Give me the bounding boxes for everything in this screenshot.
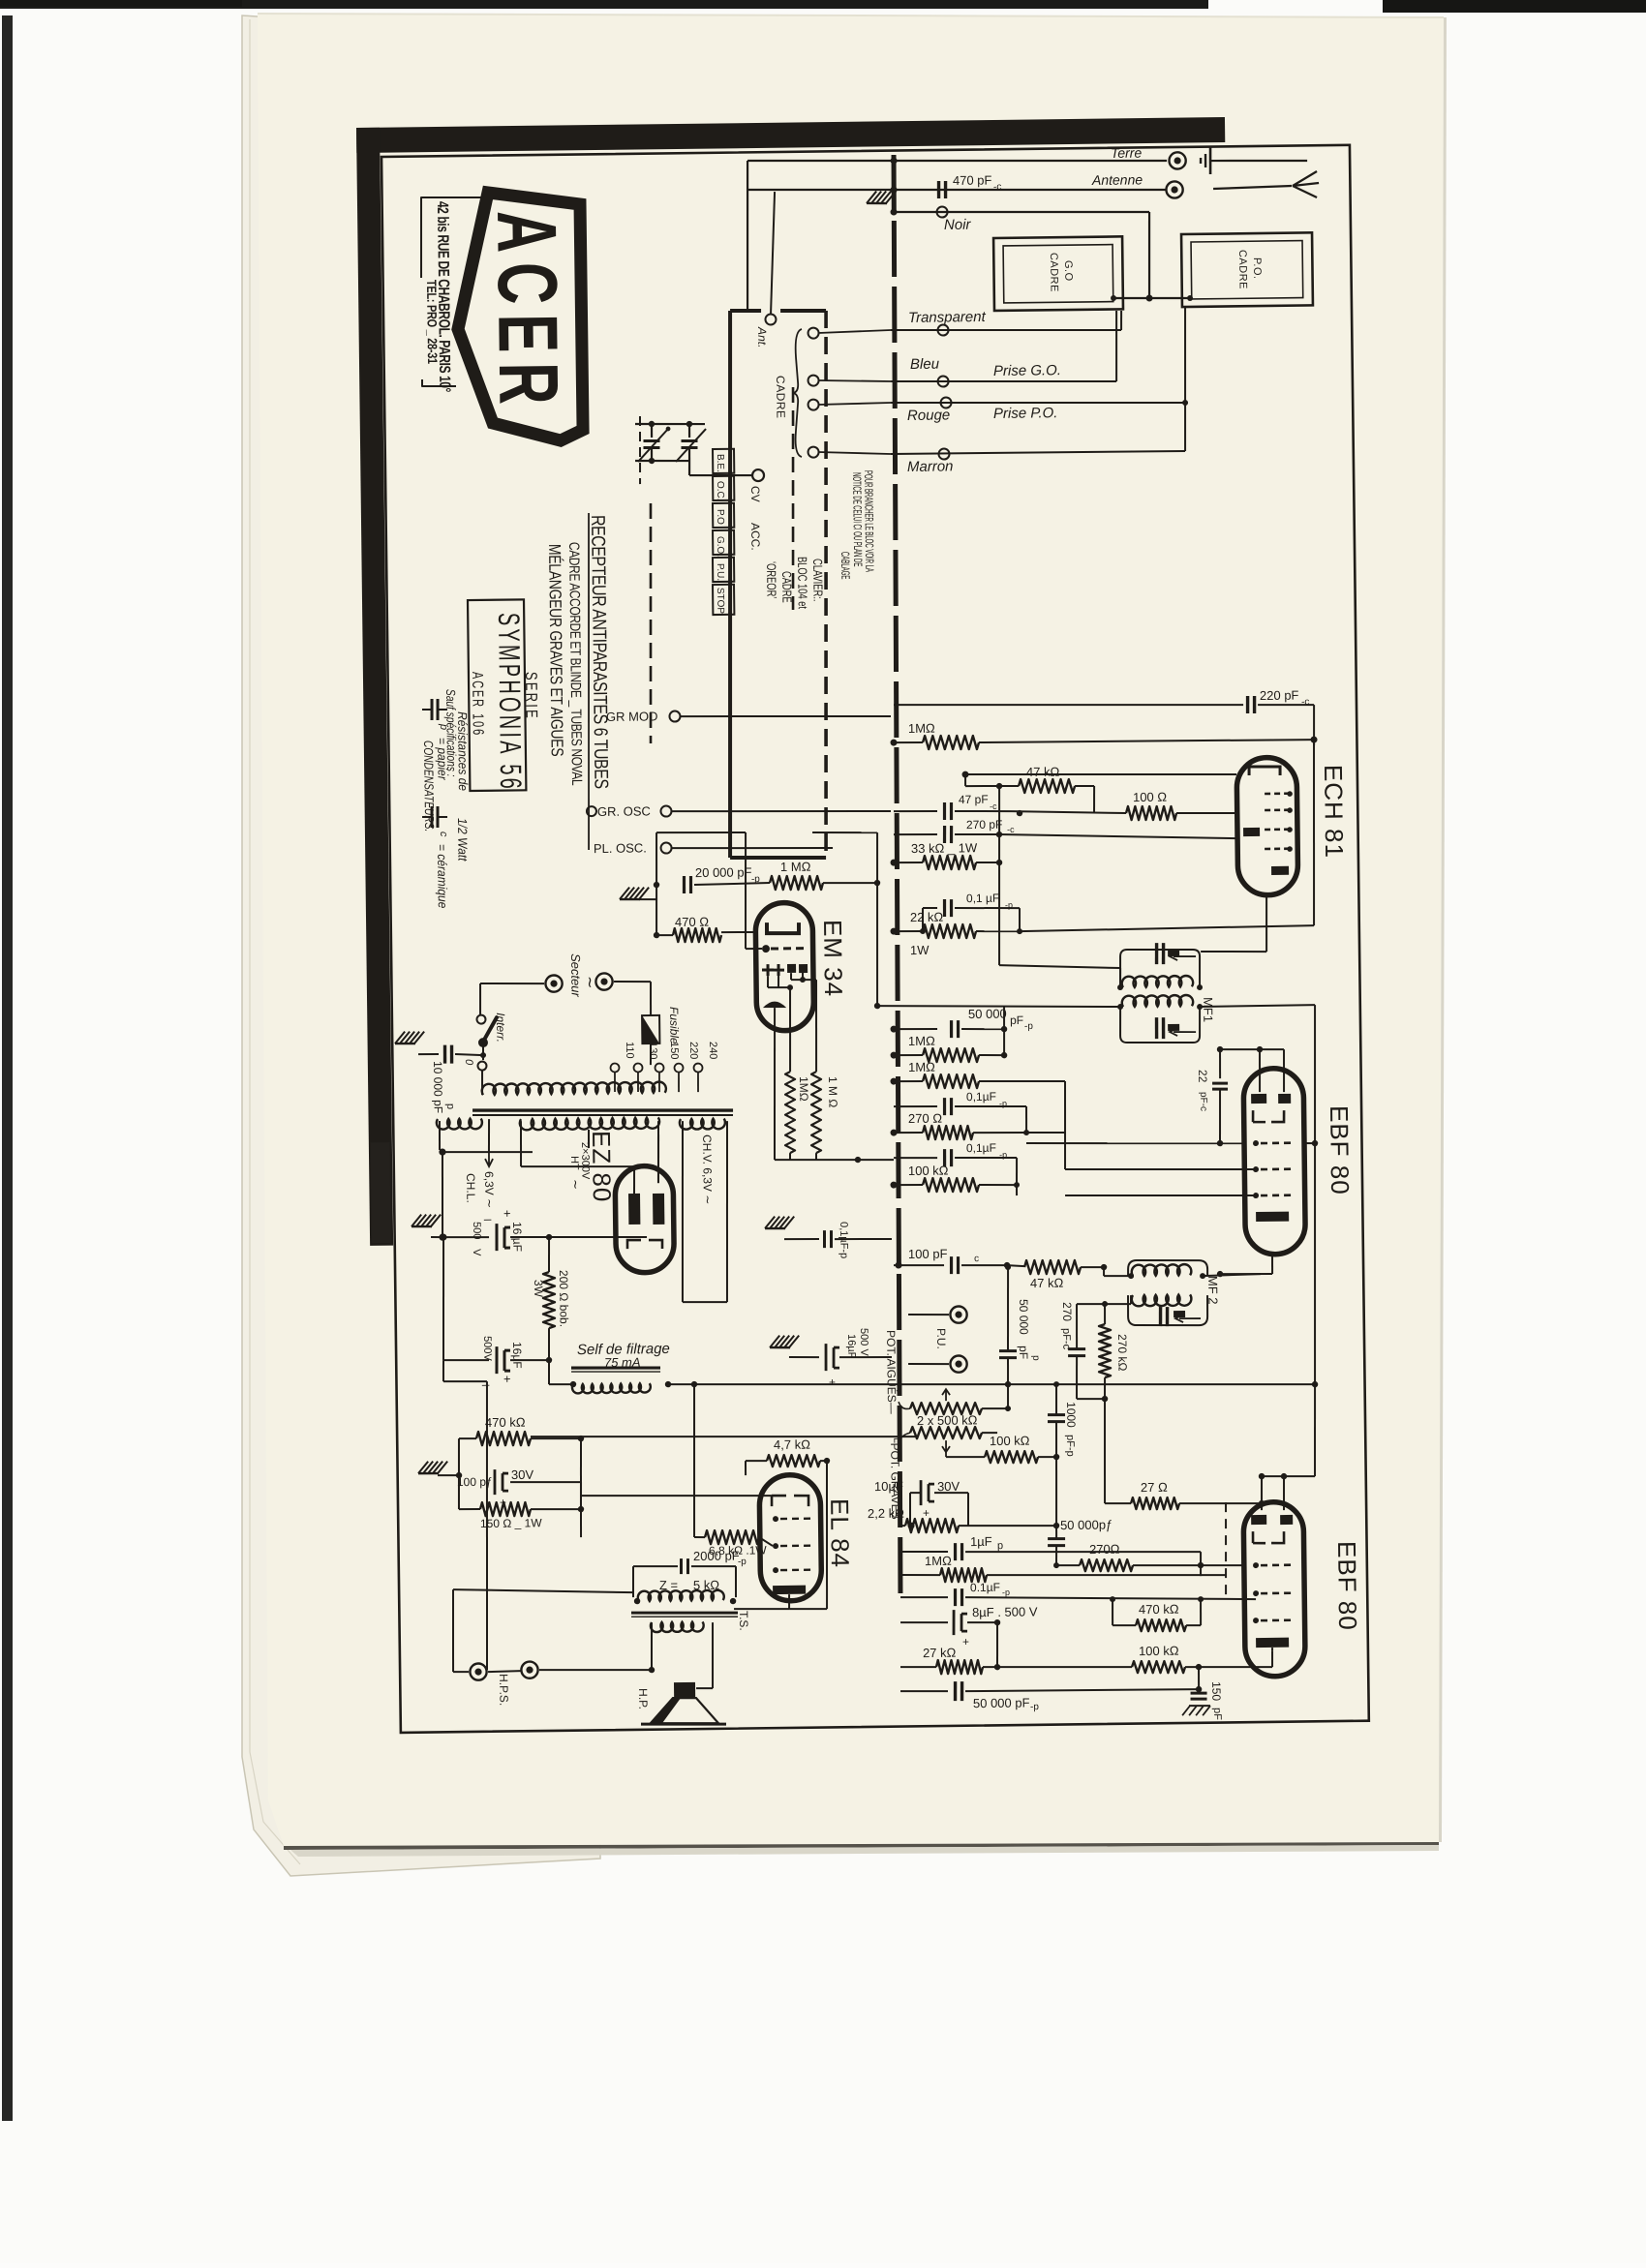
wire cathode el84 bbox=[510, 1481, 581, 1483]
svg-text:O.C.: O.C. bbox=[715, 481, 725, 501]
resistor 33 k ohm 1W bbox=[894, 862, 923, 864]
keyboard key BE bbox=[713, 449, 734, 473]
svg-text:100 Ω: 100 Ω bbox=[1133, 790, 1167, 804]
resistor 6.8 k ohm 1W bbox=[692, 1384, 696, 1537]
potentiometer 2x500k (graves) bbox=[910, 1426, 982, 1439]
svg-text:50 000: 50 000 bbox=[1017, 1299, 1030, 1335]
MF1 primary unit bbox=[1120, 949, 1201, 988]
svg-text:1/2 Watt: 1/2 Watt bbox=[455, 818, 470, 862]
electrolytic 16uF 500V af bbox=[826, 1344, 840, 1371]
clavier box bottom edge bbox=[730, 857, 826, 859]
keyboard key STOP bbox=[713, 585, 734, 615]
dashed gang line cv bbox=[639, 416, 641, 484]
clavier terminal 1 bbox=[808, 327, 818, 338]
terminal CV ACC bbox=[752, 469, 764, 481]
svg-text:P.O.: P.O. bbox=[1251, 257, 1263, 280]
output transformer core bbox=[631, 1612, 738, 1615]
cadre brace bbox=[792, 329, 803, 457]
resistor 1M ohm (b) bbox=[894, 1080, 923, 1083]
resistor 100 k ohm af bbox=[1132, 1660, 1185, 1673]
svg-text:0.1µF: 0.1µF bbox=[970, 1581, 1000, 1594]
resistor 270 ohm out bbox=[1080, 1558, 1133, 1571]
resistor 100 k ohm tone bbox=[985, 1450, 1038, 1463]
svg-text:P.O: P.O bbox=[715, 509, 725, 525]
electrolytic 16uF 500V (1) bbox=[439, 1233, 445, 1240]
svg-text:ʻOREORʼ: ʻOREORʼ bbox=[764, 561, 777, 599]
tube EM34 envelope bbox=[755, 902, 814, 1031]
svg-text:1MΩ: 1MΩ bbox=[925, 1554, 952, 1568]
speaker H.P. bbox=[651, 1622, 652, 1670]
svg-text:470 pF: 470 pF bbox=[953, 172, 992, 187]
wire em34 top bbox=[655, 832, 658, 937]
HT centre tap bbox=[588, 1130, 590, 1148]
svg-text:Noir: Noir bbox=[944, 217, 972, 233]
thick black border bar (top) bbox=[356, 117, 1225, 153]
svg-text:2000 pF: 2000 pF bbox=[693, 1548, 740, 1563]
tube EBF80 (2) envelope bbox=[1243, 1501, 1305, 1677]
transformer secondary CH.L. bbox=[437, 1119, 482, 1130]
svg-text:p: p bbox=[997, 1540, 1003, 1552]
svg-text:MF1: MF1 bbox=[1201, 997, 1215, 1022]
transformer secondary HT bbox=[520, 1117, 659, 1130]
svg-text:47 kΩ: 47 kΩ bbox=[1026, 765, 1060, 779]
EM34 internal wires bbox=[767, 976, 769, 987]
svg-text:CADRE: CADRE bbox=[1236, 250, 1249, 289]
resistor 47 k ohm det bbox=[1007, 1265, 1024, 1266]
terminal Antenne bbox=[1166, 181, 1182, 197]
svg-text:1 M Ω: 1 M Ω bbox=[826, 1076, 839, 1108]
svg-text:+: + bbox=[829, 1376, 836, 1389]
output transformer TS primary bbox=[638, 1590, 724, 1601]
svg-text:POT. AIGUÉS—: POT. AIGUÉS— bbox=[884, 1330, 899, 1414]
svg-text:c: c bbox=[438, 832, 449, 837]
svg-text:30V: 30V bbox=[937, 1479, 960, 1494]
svg-text:500 V: 500 V bbox=[858, 1328, 869, 1357]
variable capacitor CV 1 bbox=[649, 421, 655, 427]
resistor 270 ohm bbox=[894, 1132, 923, 1134]
clavier terminal 2 bbox=[808, 376, 818, 386]
resistor 1M ohm em34 bbox=[770, 875, 823, 890]
capacitor 220 pF-c bbox=[894, 701, 1243, 710]
svg-text:EL 84: EL 84 bbox=[825, 1498, 855, 1568]
capacitor 0.1 uF-p bbox=[923, 907, 937, 909]
wire terre to frame bbox=[1210, 160, 1307, 162]
wire cv top bbox=[635, 423, 705, 425]
svg-text:27 kΩ: 27 kΩ bbox=[923, 1646, 957, 1660]
resistor 1M ohm af bbox=[900, 1575, 940, 1576]
svg-text:16µF: 16µF bbox=[845, 1334, 857, 1359]
EBF80-2 pin wires top bbox=[1261, 1476, 1264, 1510]
capacitor 0.1uF-p detector bbox=[823, 1230, 826, 1248]
svg-text:27 Ω: 27 Ω bbox=[1141, 1480, 1168, 1495]
wire antenne line bbox=[747, 185, 1166, 196]
variable capacitor CV 2 bbox=[686, 421, 692, 427]
svg-text:6,3V ∼: 6,3V ∼ bbox=[482, 1171, 496, 1208]
svg-text:Rouge: Rouge bbox=[907, 407, 950, 424]
svg-text:Prise G.O.: Prise G.O. bbox=[993, 362, 1061, 379]
svg-text:pF-p: pF-p bbox=[1064, 1435, 1076, 1457]
bus junction antenne bbox=[891, 186, 898, 193]
capacitor 50000 pF p vertical bbox=[999, 1349, 1017, 1352]
terminal HPS 1 bbox=[470, 1663, 486, 1679]
capacitor 0.1 uF-p (c) bbox=[894, 1158, 937, 1159]
clavier terminal 3 bbox=[808, 400, 818, 410]
IF transformer MF2 primary bbox=[1128, 1259, 1207, 1277]
wire bleu prise go bbox=[891, 378, 1116, 384]
terminal Terre bbox=[1169, 152, 1185, 168]
EBF80-1 pin wires bbox=[1065, 1167, 1256, 1172]
terminal secteur 2 bbox=[595, 973, 612, 989]
svg-text:47 kΩ: 47 kΩ bbox=[1030, 1276, 1064, 1290]
ground at noir wire bbox=[867, 191, 896, 203]
svg-text:-p: -p bbox=[1002, 1588, 1010, 1597]
svg-text:220 pF: 220 pF bbox=[1260, 688, 1299, 703]
wire secteur 2 to fuse bbox=[614, 981, 651, 983]
svg-text:Prise P.O.: Prise P.O. bbox=[993, 405, 1058, 422]
SYMPHONIA 56 box bbox=[468, 599, 526, 791]
resistor 2.2 k ohm bbox=[899, 1525, 905, 1527]
wire ant diagonal bbox=[769, 192, 776, 315]
capacitor 10000 pF mains bbox=[395, 1031, 424, 1043]
svg-text:4,7 kΩ: 4,7 kΩ bbox=[774, 1437, 810, 1452]
svg-text:CABLAGE: CABLAGE bbox=[838, 552, 851, 580]
wire switch to secteur bbox=[479, 983, 482, 1014]
svg-text:22: 22 bbox=[1196, 1070, 1209, 1083]
wire ebf80-1 top bbox=[1220, 1048, 1284, 1050]
address bracket bbox=[420, 197, 484, 278]
wire 4.7k down to anode bbox=[825, 1461, 829, 1609]
transformer primary tap wires bbox=[481, 1070, 484, 1095]
svg-text:30V: 30V bbox=[511, 1467, 534, 1482]
capacitor 47 pF-c bbox=[894, 811, 937, 812]
svg-text:0,1 µF: 0,1 µF bbox=[966, 892, 999, 905]
svg-text:Fusible: Fusible bbox=[667, 1007, 681, 1044]
svg-text:p: p bbox=[1030, 1355, 1041, 1361]
svg-text:CLAVIER:.: CLAVIER:. bbox=[810, 559, 824, 602]
svg-text:10 000 pF: 10 000 pF bbox=[431, 1061, 445, 1113]
terminal marron bbox=[938, 448, 949, 459]
capacitor 1000 pF-p vertical bbox=[1048, 1413, 1065, 1416]
svg-text:150 Ω _ 1W: 150 Ω _ 1W bbox=[480, 1516, 543, 1530]
svg-text:p: p bbox=[444, 1104, 456, 1109]
MF1 wires bbox=[999, 964, 1120, 970]
svg-text:H.P.S.: H.P.S. bbox=[497, 1674, 510, 1706]
keyboard key PU bbox=[713, 558, 734, 582]
svg-text:100 kΩ: 100 kΩ bbox=[908, 1164, 949, 1179]
dashed shield line bbox=[790, 387, 796, 610]
svg-text:HT: HT bbox=[568, 1156, 580, 1170]
svg-text:0,1µF: 0,1µF bbox=[966, 1141, 996, 1155]
svg-text:0,1µF: 0,1µF bbox=[966, 1090, 996, 1104]
left scan edge black strip bbox=[2, 15, 13, 2121]
svg-text:ECH 81: ECH 81 bbox=[1319, 765, 1349, 859]
wire gr mod bbox=[681, 713, 891, 718]
svg-text:RECEPTEUR ANTIPARASITES 6 TU: RECEPTEUR ANTIPARASITES 6 TUBES bbox=[588, 515, 613, 789]
MF2 secondary bbox=[1128, 1294, 1208, 1326]
terminal PU 2 bbox=[908, 1364, 949, 1365]
resistor 27 k ohm bbox=[900, 1666, 936, 1669]
svg-text:100 kΩ: 100 kΩ bbox=[990, 1434, 1030, 1449]
wire marron bbox=[891, 450, 1185, 454]
svg-text:-p: -p bbox=[1024, 1021, 1033, 1032]
paper bottom edge shadow bbox=[284, 1842, 1439, 1850]
svg-text:270: 270 bbox=[1060, 1302, 1074, 1322]
svg-text:110: 110 bbox=[624, 1042, 635, 1059]
svg-text:470 kΩ: 470 kΩ bbox=[1139, 1602, 1179, 1618]
ground EM34 left bbox=[620, 887, 649, 899]
svg-text:G.O.: G.O. bbox=[715, 536, 725, 557]
EM34 dash grid row bbox=[771, 947, 804, 950]
terminal GR OSC bbox=[660, 805, 671, 816]
capacitor 2000 pF-p bbox=[680, 1558, 683, 1574]
resistor 470 k ohm af bbox=[1136, 1618, 1186, 1631]
transformer primary winding bbox=[482, 1082, 666, 1096]
clavier box top edge bbox=[730, 309, 761, 314]
svg-text:T.S.: T.S. bbox=[737, 1611, 750, 1631]
svg-text:+: + bbox=[923, 1506, 930, 1520]
wire cv bottom bbox=[635, 460, 689, 461]
transformer core bbox=[472, 1107, 733, 1114]
svg-text:20 000 pF: 20 000 pF bbox=[695, 864, 752, 880]
svg-text:500: 500 bbox=[471, 1222, 482, 1240]
capacitor 0.1 uF-p (b) bbox=[894, 1106, 937, 1107]
switch Interr bbox=[476, 1015, 485, 1024]
svg-text:_: _ bbox=[481, 1372, 490, 1386]
vertical wire to clavier bbox=[746, 161, 749, 311]
ECH81 pin wires bbox=[1265, 895, 1266, 952]
svg-text:270 pF: 270 pF bbox=[966, 818, 1003, 832]
capacitor 100 pF c bbox=[894, 1264, 944, 1265]
EBF80-2 internals bbox=[1251, 1515, 1266, 1525]
wire 270k down to 27ohm bbox=[1104, 1399, 1107, 1503]
svg-text:16µF: 16µF bbox=[510, 1342, 524, 1369]
capacitor 50000 pF-p bottom bbox=[900, 1690, 948, 1691]
dashed screen line ebf80-2 bbox=[1225, 1502, 1227, 1601]
capacitor 150 pF ground bbox=[1191, 1691, 1207, 1694]
terminal GR MOD bbox=[669, 711, 680, 721]
wire bleu vertical to cadre go bbox=[1115, 311, 1117, 381]
wire em34 right bbox=[812, 832, 877, 833]
wire gr osc bbox=[672, 808, 891, 813]
svg-text:pF-c: pF-c bbox=[1198, 1092, 1208, 1111]
svg-text:1MΩ: 1MΩ bbox=[908, 1060, 935, 1074]
wire 270ohm to ebf80-2 bbox=[1200, 1552, 1202, 1565]
svg-text:EBF 80: EBF 80 bbox=[1332, 1541, 1362, 1631]
svg-text:PL. OSC.: PL. OSC. bbox=[594, 840, 647, 856]
wire pl osc bbox=[672, 846, 833, 850]
loop antenna CADRE P.O. box bbox=[1181, 232, 1313, 307]
clavier box right edge dashed bbox=[819, 311, 833, 858]
svg-text:1W: 1W bbox=[910, 943, 930, 957]
capacitor 270 pF-c vertical bbox=[1068, 1347, 1085, 1350]
svg-text:P.U.: P.U. bbox=[715, 563, 725, 581]
clavier terminal 4 bbox=[808, 447, 818, 458]
clavier box left edge bbox=[723, 311, 737, 858]
svg-text:Résistances de: Résistances de bbox=[455, 711, 471, 791]
schematic inner frame bbox=[381, 145, 1369, 1733]
resistor 47 k ohm bbox=[1019, 778, 1075, 793]
svg-text:47 pF: 47 pF bbox=[959, 793, 989, 806]
EM34 deflection crosses bbox=[762, 964, 784, 976]
ground 150pF bbox=[1182, 1706, 1210, 1716]
svg-text:-c: -c bbox=[990, 801, 997, 811]
svg-text:-c: -c bbox=[1007, 825, 1015, 834]
svg-text:pF-c: pF-c bbox=[1060, 1328, 1072, 1350]
self de filtrage winding bbox=[572, 1383, 651, 1393]
svg-text:50 000 pF: 50 000 pF bbox=[973, 1695, 1030, 1710]
wire noir to cadre junction bbox=[1148, 212, 1150, 298]
svg-text:Marron: Marron bbox=[907, 458, 954, 475]
svg-text:Terre: Terre bbox=[1111, 145, 1143, 161]
paper right edge shadow bbox=[1439, 17, 1447, 1842]
svg-text:H.P.: H.P. bbox=[636, 1688, 650, 1709]
svg-text:1µF: 1µF bbox=[970, 1534, 992, 1549]
svg-text:pF: pF bbox=[1017, 1346, 1030, 1359]
svg-text:GR MOD: GR MOD bbox=[606, 709, 658, 724]
svg-text:50 000: 50 000 bbox=[968, 1007, 1007, 1021]
svg-text:MF 2: MF 2 bbox=[1205, 1276, 1220, 1305]
wire ech81 top row bbox=[963, 771, 1236, 778]
capacitor 0.1uF-p af bbox=[900, 1596, 948, 1597]
speaker wires bbox=[488, 1670, 521, 1673]
svg-text:-c: -c bbox=[1301, 697, 1309, 708]
svg-text:Antenne: Antenne bbox=[1091, 171, 1143, 188]
svg-text:470 Ω: 470 Ω bbox=[675, 915, 709, 929]
wire grid ebf80-1 bbox=[1026, 1140, 1243, 1146]
svg-text:p: p bbox=[438, 723, 449, 730]
keyboard key GO bbox=[713, 530, 734, 555]
top paper edge line bbox=[258, 14, 1444, 17]
svg-text:2,2 kΩ: 2,2 kΩ bbox=[868, 1506, 904, 1521]
resistor 27 ohm bbox=[1131, 1497, 1179, 1510]
svg-text:EZ 80: EZ 80 bbox=[587, 1131, 617, 1203]
svg-text:CH.L.: CH.L. bbox=[464, 1173, 477, 1203]
svg-text:ACER 106: ACER 106 bbox=[470, 672, 487, 737]
chassis ground at terre bbox=[1200, 158, 1203, 164]
svg-text:0: 0 bbox=[463, 1059, 474, 1066]
MF1 secondary unit bbox=[1120, 1006, 1201, 1043]
svg-text:10µF: 10µF bbox=[874, 1479, 903, 1494]
svg-text:CH.V. 6,3V ∼: CH.V. 6,3V ∼ bbox=[700, 1134, 715, 1204]
svg-text:270Ω: 270Ω bbox=[1089, 1542, 1120, 1557]
resistor 1M ohm agc bbox=[894, 741, 923, 744]
potentiometer 2x500k (aigues) bbox=[910, 1402, 982, 1415]
svg-text:270 Ω: 270 Ω bbox=[908, 1111, 942, 1126]
svg-text:200 Ω bob.: 200 Ω bob. bbox=[557, 1270, 571, 1327]
svg-text:100 kΩ: 100 kΩ bbox=[1139, 1644, 1179, 1659]
top scan black bar bbox=[0, 0, 1208, 9]
ground el84 bbox=[418, 1461, 447, 1473]
resistor 470 k ohm bbox=[459, 1437, 476, 1439]
svg-text:22 kΩ: 22 kΩ bbox=[910, 910, 944, 924]
svg-text:270 kΩ: 270 kΩ bbox=[1115, 1334, 1129, 1372]
wire terre line bbox=[747, 156, 1167, 166]
capacitor 270 pF-c bbox=[894, 834, 937, 835]
svg-text:STOP: STOP bbox=[715, 588, 725, 615]
tube EZ80 envelope bbox=[615, 1165, 674, 1273]
svg-text:CADRE: CADRE bbox=[779, 571, 793, 603]
svg-text:Bleu: Bleu bbox=[910, 356, 940, 373]
resistor 4.7 k ohm bbox=[767, 1454, 820, 1467]
capacitor 470 pF-c bbox=[937, 181, 941, 198]
electrolytic 16uF 500V (2) bbox=[442, 1237, 444, 1360]
resistor 200 ohm bob 3W vertical bbox=[542, 1272, 555, 1328]
under-sheet left edge bbox=[242, 15, 600, 1876]
svg-text:8µF . 500 V: 8µF . 500 V bbox=[972, 1604, 1038, 1619]
svg-text:1MΩ: 1MΩ bbox=[908, 1034, 935, 1048]
capacitor 1uF p bbox=[900, 1551, 948, 1552]
svg-text:33 kΩ _ 1W: 33 kΩ _ 1W bbox=[911, 840, 978, 856]
resistor 150 ohm 1W bbox=[480, 1502, 531, 1517]
wire agc loop under ECH81 bbox=[1312, 740, 1317, 925]
svg-text:50 000pƒ: 50 000pƒ bbox=[1060, 1517, 1113, 1532]
terminal noir bbox=[936, 206, 947, 217]
terminal secteur 1 bbox=[545, 975, 562, 991]
svg-text:-p: -p bbox=[1030, 1702, 1039, 1712]
ground detector bbox=[765, 1216, 794, 1228]
resistor 270 k ohm vertical bbox=[1098, 1324, 1111, 1377]
svg-text:CV: CV bbox=[748, 486, 762, 502]
svg-text:2 x 500 kΩ: 2 x 500 kΩ bbox=[917, 1412, 978, 1428]
svg-text:= céramique: = céramique bbox=[435, 844, 449, 909]
tube EL84 envelope bbox=[759, 1474, 822, 1601]
svg-text:BLOC 104 et: BLOC 104 et bbox=[795, 557, 809, 610]
svg-text:+: + bbox=[503, 1206, 511, 1221]
svg-text:CADRE ACCORDE ET BLINDE _: CADRE ACCORDE ET BLINDE _ TUBES NOVAL bbox=[566, 542, 586, 786]
antenna symbol bbox=[1213, 186, 1292, 189]
ground af cathode bbox=[770, 1335, 799, 1347]
bus junction terre bbox=[891, 157, 898, 164]
svg-text:1MΩ: 1MΩ bbox=[797, 1076, 810, 1102]
svg-text:130: 130 bbox=[647, 1042, 658, 1060]
terminal rouge bbox=[940, 397, 951, 408]
terminal PU 1 bbox=[908, 1315, 949, 1315]
resistor 22 k ohm 1W bbox=[894, 930, 923, 933]
svg-text:CONDENSATEURS.: CONDENSATEURS. bbox=[421, 741, 437, 832]
cadre interconnect wire bbox=[1113, 297, 1190, 299]
EL84 internals bbox=[772, 1496, 808, 1507]
svg-text:V: V bbox=[471, 1249, 482, 1256]
svg-text:P.U.: P.U. bbox=[934, 1328, 948, 1349]
svg-text:pF: pF bbox=[1010, 1013, 1023, 1027]
EL84 anode wire bbox=[788, 1594, 790, 1609]
terminal bleu bbox=[938, 376, 949, 386]
svg-text:TEL: PRO _ 28-31: TEL: PRO _ 28-31 bbox=[424, 280, 441, 364]
EM34 target plates bbox=[787, 964, 796, 973]
dashed gang line to oscillator bbox=[648, 503, 654, 743]
terminal PL OSC bbox=[660, 842, 671, 853]
tube EBF80 (1) envelope bbox=[1243, 1068, 1305, 1255]
svg-text:Transparent: Transparent bbox=[908, 309, 987, 326]
resistor 100 ohm bbox=[1012, 810, 1126, 815]
capacitor 20000 pF-p bbox=[683, 876, 686, 893]
wire marron vertical bbox=[1184, 403, 1185, 451]
svg-text:pF: pF bbox=[1211, 1708, 1223, 1720]
wire transparent bbox=[891, 327, 1121, 333]
svg-text:Ant.: Ant. bbox=[755, 326, 769, 348]
svg-text:ACER: ACER bbox=[479, 210, 576, 414]
legend papier capacitor symbol bbox=[430, 699, 434, 720]
svg-text:∼: ∼ bbox=[568, 1179, 583, 1190]
svg-text:-p: -p bbox=[738, 1557, 747, 1567]
resistor 1M ohm (a) bbox=[894, 1054, 923, 1057]
svg-text:1 MΩ: 1 MΩ bbox=[780, 860, 811, 874]
ACER logo shield bbox=[456, 192, 583, 442]
capacitor 50000 pF-p bbox=[894, 1029, 937, 1030]
tube ECH81 envelope bbox=[1236, 757, 1298, 895]
svg-text:-c: -c bbox=[993, 182, 1001, 193]
svg-text:220: 220 bbox=[687, 1042, 699, 1060]
